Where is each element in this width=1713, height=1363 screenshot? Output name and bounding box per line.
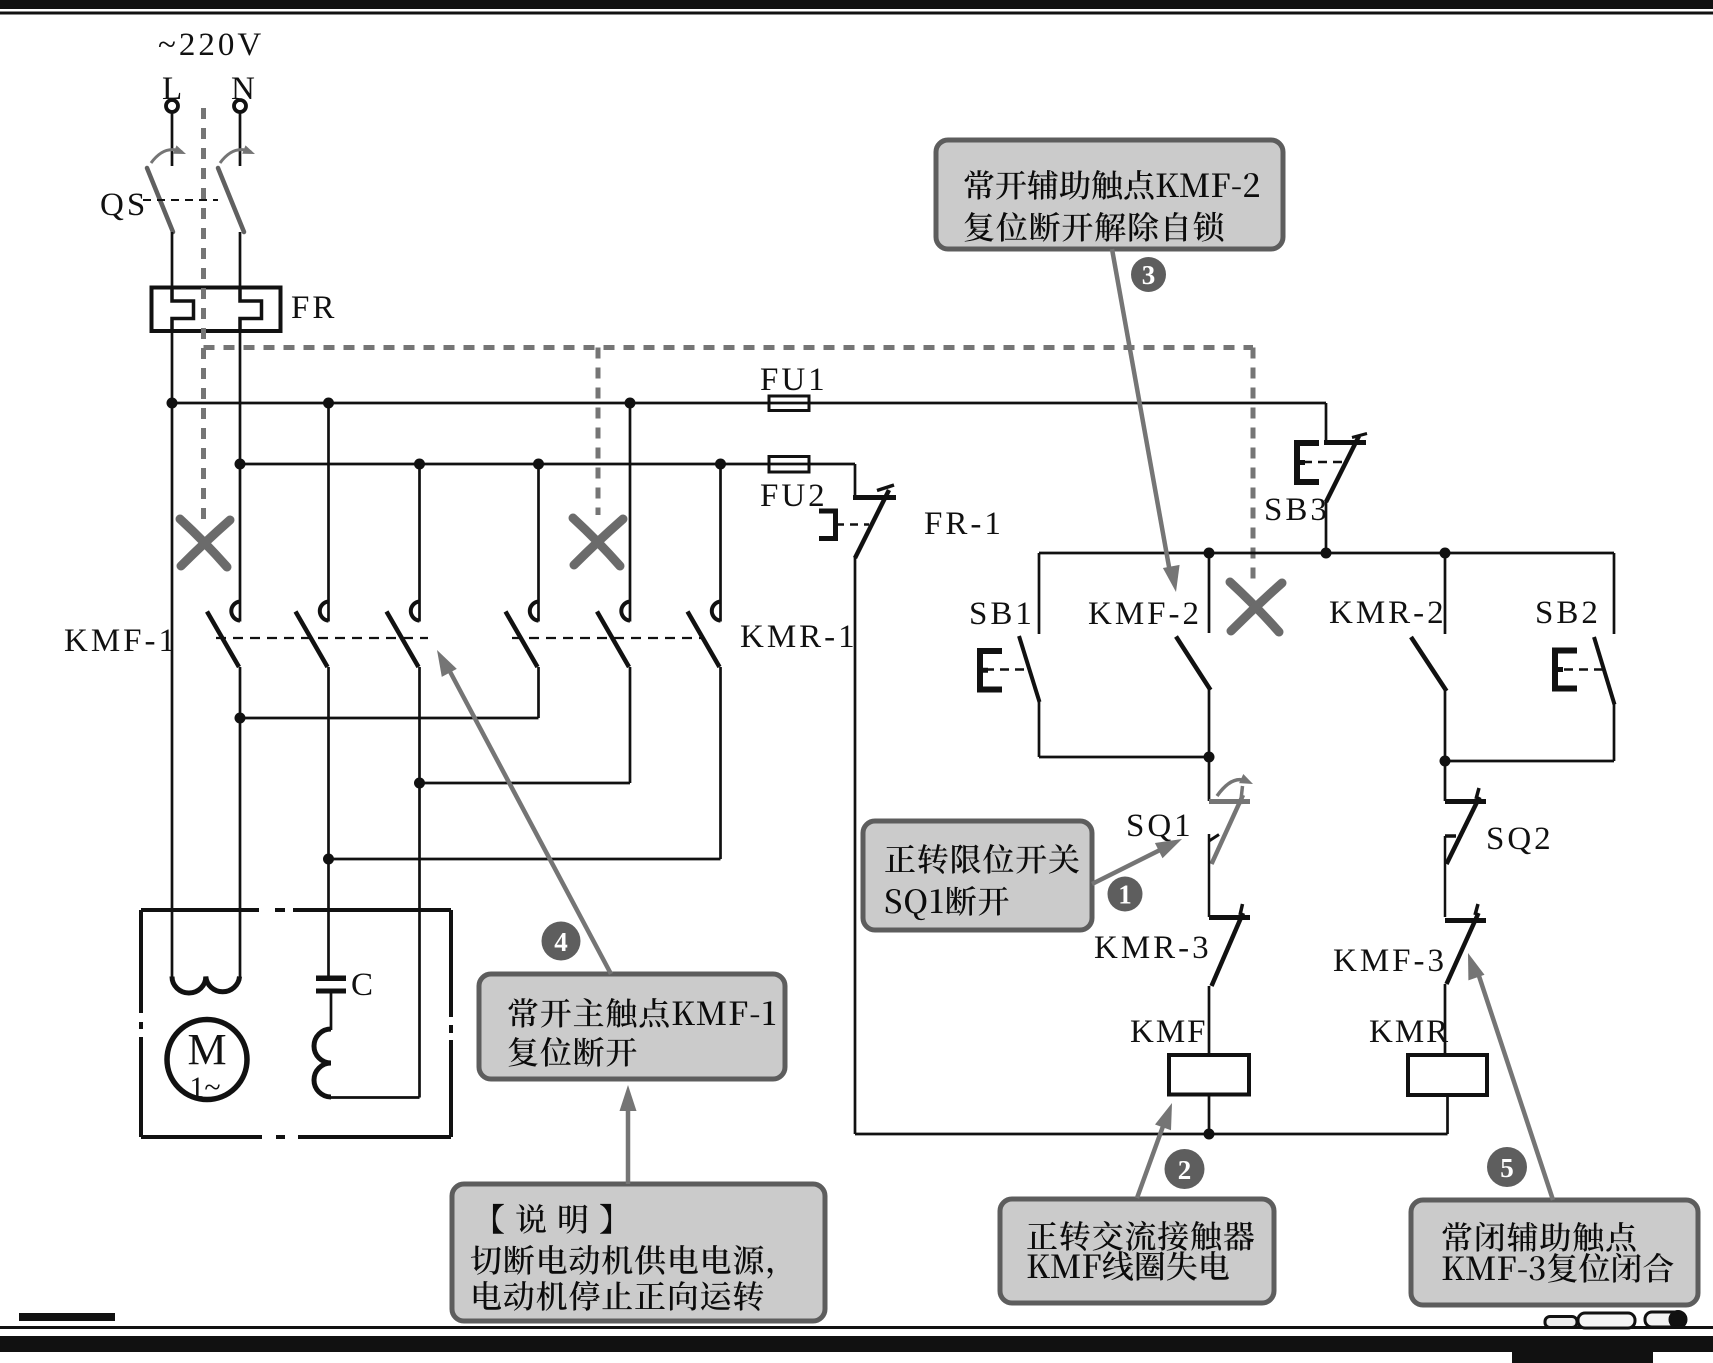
svg-text:1~: 1~ [189, 1071, 220, 1104]
wire N terminal to QS [239, 112, 242, 167]
wire N QS to FR [239, 232, 242, 288]
grey dashed trace vertical left [201, 108, 206, 519]
terminal N [234, 100, 246, 112]
switch QS blade L [147, 168, 173, 232]
KMR-1 linkage dashed [512, 637, 701, 639]
FR-1 actuator bracket [819, 511, 836, 539]
contactor main contact KMF-1 pole 2 arm [296, 612, 328, 668]
svg-text:FR: FR [291, 290, 337, 326]
contactor main contact KMR-1 pole 1 arm [506, 612, 538, 668]
aux contact KMR-3 bar [1209, 915, 1250, 920]
svg-text:KMR-3: KMR-3 [1094, 930, 1212, 966]
page bottom left bar [19, 1313, 115, 1321]
limit switch SQ1 bar [1209, 799, 1250, 804]
callout explain text line 3 [474, 1281, 764, 1311]
wire KMF-3 to KMR coil [1444, 984, 1447, 1055]
thermal relay FR box [152, 288, 281, 332]
callout 1 text line 2 [886, 886, 1009, 920]
wire c2 to c6 [329, 858, 721, 861]
wire capacitor to aux winding [330, 994, 333, 1031]
pushbutton SB1 arm [1019, 636, 1040, 702]
arrow from callout 2 to KMF coil [1137, 1118, 1166, 1198]
wire feeder contact 4 [537, 464, 540, 622]
svg-text:SQ1: SQ1 [1126, 808, 1194, 844]
grey dashed trace right branch [1251, 348, 1256, 582]
wire KMR coil to rail [1446, 1095, 1449, 1134]
limit switch SQ2 arm [1447, 797, 1480, 864]
pushbutton SB3 arm [1326, 436, 1359, 502]
callout 2 box [1000, 1199, 1274, 1303]
wire contact6 bottom [719, 667, 722, 859]
wire junction to SQ2 [1444, 761, 1447, 801]
callout 1 box [863, 821, 1092, 930]
wire feeder contact 2 [327, 403, 330, 622]
wire KMF-2 to junction [1208, 689, 1211, 757]
numbered circle 4 [542, 922, 581, 961]
callout 4 box [479, 974, 785, 1079]
FR-1 actuator dashes [836, 523, 869, 526]
KMF-1 linkage dashed [216, 637, 428, 639]
node c1-c4 junction [235, 713, 246, 724]
wire contact2 to capacitor [327, 667, 330, 976]
thermal contact FR-1 arm [855, 490, 889, 558]
wire SB2 to KMR-2 junction [1445, 760, 1614, 763]
pushbutton SB3 actuator [1297, 443, 1319, 482]
svg-text:SQ2: SQ2 [1486, 821, 1554, 857]
callout explain text line 2 [471, 1245, 773, 1279]
svg-text:KMF-2: KMF-2 [1088, 596, 1202, 632]
motor main winding [172, 977, 240, 993]
svg-text:~220V: ~220V [158, 27, 264, 63]
svg-text:SB3: SB3 [1264, 492, 1330, 528]
pushbutton SB2 arm [1594, 637, 1615, 705]
motor enclosure top [141, 908, 451, 912]
svg-text:C: C [351, 967, 376, 1003]
callout 3 box [936, 140, 1283, 249]
contactor main contact KMF-1 pole 3 arm [387, 612, 419, 668]
svg-text:FR-1: FR-1 [924, 506, 1004, 542]
FR heater element L [172, 289, 194, 330]
contactor main contact KMR-1 pole 3 arm [688, 612, 720, 668]
wire L terminal to QS [171, 112, 174, 167]
node rail KMF-2 [1204, 548, 1215, 559]
node KMF-2 bottom junction [1204, 752, 1215, 763]
QS arrow N [220, 150, 251, 163]
motor enclosure right [449, 910, 453, 1137]
capacitor C plate 1 [316, 976, 346, 982]
node bus1-L [167, 398, 178, 409]
svg-text:KMF-3: KMF-3 [1333, 943, 1447, 979]
contactor main contact KMF-1 pole 2 hook [320, 602, 329, 621]
wire rail to SB2 [1613, 553, 1616, 634]
node c2-c6 junction [323, 854, 334, 865]
svg-text:SB2: SB2 [1535, 595, 1601, 631]
wire contact3 to aux winding [418, 667, 421, 1098]
limit switch SQ1 arm [1212, 795, 1244, 864]
page top border line [0, 12, 1713, 15]
arrow from explain to callout 4 [626, 1102, 631, 1184]
wire contact5 bottom [629, 667, 632, 783]
node rail SB3 [1321, 548, 1332, 559]
contactor main contact KMR-1 pole 1 hook [530, 602, 539, 621]
svg-text:5: 5 [1500, 1153, 1514, 1183]
wire KMF coil to rail [1208, 1094, 1211, 1134]
svg-text:FU2: FU2 [760, 478, 828, 514]
wire KMR-2 to junction [1444, 690, 1447, 761]
contactor main contact KMF-1 pole 3 hook [411, 602, 420, 621]
node c3-c5 junction [414, 778, 425, 789]
page top border bar [0, 0, 1713, 9]
svg-text:KMR-1: KMR-1 [740, 619, 858, 655]
node bus2-c3 [414, 459, 425, 470]
callout explain text line 1 [493, 1204, 611, 1234]
wire feeder contact 6 [719, 464, 722, 622]
svg-text:M: M [187, 1025, 226, 1074]
aux contact KMF-2 arm [1176, 637, 1211, 691]
node bus1-c2 [323, 398, 334, 409]
control bottom rail [855, 1133, 1448, 1136]
callout explain box [452, 1184, 825, 1321]
svg-text:4: 4 [554, 927, 568, 957]
svg-text:FU1: FU1 [760, 362, 828, 398]
svg-text:1: 1 [1118, 880, 1132, 910]
fuse FU1 [769, 396, 809, 411]
wire c1 to c4 [240, 717, 539, 720]
wire SB1-KMF2 junction link [1039, 756, 1209, 759]
aux contact KMF-3 arm [1447, 913, 1479, 984]
node bus1-c5 [625, 398, 636, 409]
callout 2 text line 2 [1028, 1251, 1229, 1281]
wire contact4 bottom [537, 667, 540, 718]
wire L FR to motor box [171, 330, 174, 977]
motor enclosure left [139, 910, 143, 1137]
wire bus1 to SB3 [1325, 403, 1328, 441]
switch QS blade N [218, 168, 244, 232]
callout 4 text line 2 [509, 1037, 637, 1067]
capacitor C plate 2 [316, 989, 346, 994]
wire rail to SB1 [1038, 553, 1041, 634]
aux contact KMF-3 bar [1445, 918, 1486, 923]
svg-text:2: 2 [1178, 1155, 1192, 1185]
arrow from callout 5 to KMF-3 [1478, 973, 1553, 1200]
numbered circle 3 [1131, 257, 1166, 292]
QS linkage dashed [143, 199, 218, 201]
svg-text:KMR: KMR [1369, 1014, 1450, 1050]
node rail KMR-2 [1440, 548, 1451, 559]
callout 5 text line 1 [1443, 1222, 1636, 1252]
wire rail to KMF-2 [1208, 553, 1211, 633]
X mark on KMF-2 self-lock [1230, 582, 1279, 632]
wire N FR to bus2 [239, 330, 242, 464]
node KMF coil bottom [1204, 1129, 1215, 1140]
motor M1~ circle [167, 1020, 247, 1100]
SQ1 fixed seat [1208, 834, 1211, 917]
wire junction to SQ1 [1208, 757, 1211, 801]
callout 5 text line 2 [1443, 1253, 1674, 1283]
callout 1 text line 1 [885, 844, 1079, 874]
svg-text:3: 3 [1142, 260, 1156, 290]
contactor main contact KMR-1 pole 2 hook [621, 602, 630, 621]
wire L QS to FR [171, 232, 174, 288]
callout 3 text line 1 [965, 170, 1259, 200]
SQ2 fixed seat [1445, 834, 1456, 838]
QS arrow L [151, 150, 182, 163]
grey dashed trace horizontal [204, 345, 1254, 350]
contactor main contact KMF-1 pole 1 arm [207, 612, 239, 668]
contactor coil KMF [1169, 1055, 1249, 1095]
wire aux winding bottom [331, 1096, 420, 1099]
node KMR-2 bottom junction [1440, 756, 1451, 767]
SB2 actuator dashes [1564, 668, 1603, 671]
svg-text:KMR-2: KMR-2 [1329, 595, 1447, 631]
contactor main contact KMF-1 pole 1 hook [231, 602, 240, 621]
wire feeder contact 1 [239, 464, 242, 622]
numbered circle 2 [1165, 1149, 1205, 1189]
numbered circle 1 [1108, 877, 1143, 912]
svg-text:KMF: KMF [1130, 1014, 1208, 1050]
bus line 1 [172, 402, 1326, 405]
wire c3 to c5 [420, 782, 631, 785]
pushbutton SB3 top bar [1324, 440, 1366, 445]
SB3 actuator dashes [1303, 461, 1344, 464]
pushbutton SB2 actuator [1555, 651, 1577, 689]
wire feeder contact 3 [418, 464, 421, 622]
fuse FU2 [769, 457, 809, 473]
contactor main contact KMR-1 pole 3 hook [712, 602, 721, 621]
aux contact KMR-2 arm [1411, 637, 1447, 691]
contactor main contact KMR-1 pole 2 arm [597, 612, 629, 668]
wire SB1 to junction [1038, 701, 1041, 757]
contactor coil KMR [1408, 1055, 1487, 1095]
svg-text:QS: QS [100, 187, 148, 223]
node bus2-c4 [533, 459, 544, 470]
X mark mid [573, 518, 620, 566]
wire FU2 to FR-1 [854, 464, 857, 498]
page bottom thin line [0, 1326, 1713, 1329]
arrow from callout 1 to SQ1 [1092, 846, 1168, 884]
decoration screws [1545, 1312, 1686, 1329]
wire rail to KMR-2 [1444, 553, 1447, 634]
X mark left [180, 519, 227, 567]
callout 3 text line 2 [965, 212, 1224, 242]
arrow from callout 4 to KMF-1 [447, 666, 611, 974]
limit switch SQ2 bar [1445, 799, 1486, 804]
motor enclosure bottom [141, 1135, 451, 1139]
pushbutton SB1 actuator [980, 651, 1002, 690]
callout 4 text line 1 [509, 998, 776, 1028]
control top rail [1039, 552, 1614, 555]
thermal contact FR-1 bar [853, 495, 896, 500]
callout 2 text line 1 [1027, 1221, 1254, 1251]
wire feeder contact 5 [629, 403, 632, 622]
arrow from callout 3 to KMF-2 [1112, 249, 1171, 578]
grey dashed trace mid branch [596, 348, 601, 516]
page bottom right block [1512, 1344, 1653, 1363]
wire KMR-3 to KMF coil [1208, 986, 1211, 1055]
motor aux winding [314, 1029, 331, 1097]
page bottom band [0, 1336, 1713, 1352]
control left rail [854, 557, 857, 1134]
svg-text:SB1: SB1 [969, 596, 1035, 632]
bus line 2 [239, 463, 855, 466]
wire contact1 to motor winding [239, 667, 242, 977]
aux contact KMR-3 arm [1212, 913, 1244, 986]
node bus2-c6 [715, 459, 726, 470]
numbered circle 5 [1487, 1147, 1527, 1187]
SB1 actuator dashes [985, 668, 1028, 671]
wire SB2 down [1613, 703, 1616, 761]
node bus2-N [235, 459, 246, 470]
terminal L [166, 100, 178, 112]
callout 5 box [1411, 1200, 1698, 1305]
svg-text:KMF-1: KMF-1 [64, 623, 178, 659]
wire SB3 to rail [1325, 501, 1328, 553]
FR heater element N [240, 289, 262, 330]
SQ1 actuation arc arrow [1217, 780, 1246, 796]
